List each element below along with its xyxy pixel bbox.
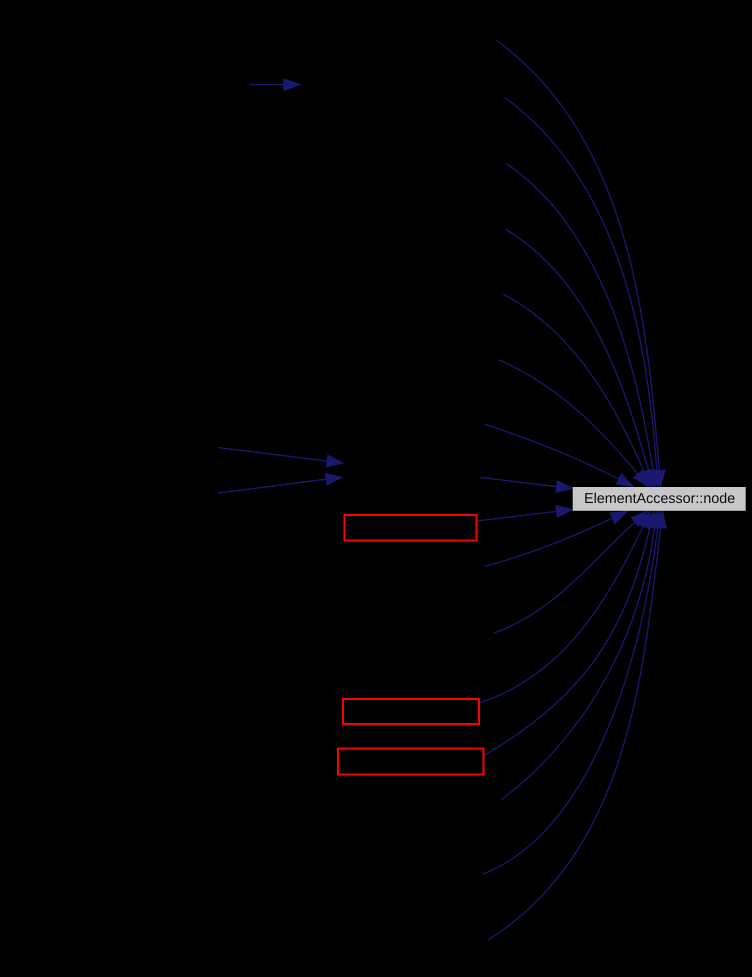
edge from red node (caller 9) to node (left)	[477, 506, 573, 521]
central node ElementAccessor::node	[573, 487, 746, 511]
edge from caller 16	[488, 512, 666, 941]
edge from caller 6	[498, 360, 648, 487]
edge from caller 11	[494, 512, 647, 634]
edge from caller 12 (red node)	[479, 512, 650, 704]
edge from caller 8 to node (left)	[481, 478, 573, 493]
edge from caller 15	[483, 512, 664, 875]
edge from caller 3	[506, 163, 659, 486]
edge from caller 1	[497, 41, 666, 487]
arrow A1 (caller of caller, top-left)	[250, 79, 300, 91]
edge from caller 7	[485, 424, 634, 487]
edge from caller 4	[505, 229, 654, 487]
edge from caller 2	[505, 98, 663, 487]
red node box 3	[338, 749, 484, 775]
edge from caller 13 (red node)	[484, 512, 656, 757]
arrow A2 (caller of caller 8, upper)	[218, 448, 343, 467]
edge from caller 14	[501, 512, 661, 801]
arrow A3 (caller of caller 8, lower)	[218, 474, 342, 494]
red node box 1	[345, 515, 477, 541]
red node box 2	[343, 699, 479, 724]
edge from caller 10	[485, 512, 628, 567]
edge from caller 5	[503, 294, 650, 486]
